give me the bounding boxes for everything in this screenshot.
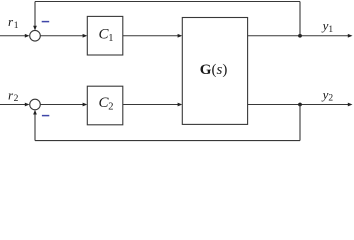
svg-text:1: 1 xyxy=(328,25,333,35)
svg-text:G(s): G(s) xyxy=(200,62,228,78)
svg-text:2: 2 xyxy=(14,94,19,104)
block C1 xyxy=(87,16,123,55)
junction node on y1 line xyxy=(298,34,302,38)
svg-text:2: 2 xyxy=(108,102,113,113)
svg-text:y: y xyxy=(321,87,329,102)
arrowhead into G top input xyxy=(178,34,183,38)
arrowhead output y2 xyxy=(348,103,353,107)
wire S1 to C1 xyxy=(40,35,83,37)
arrowhead feedback into S1 top xyxy=(33,26,37,31)
arrowhead feedback into S2 bottom xyxy=(33,110,37,115)
feedback wire top horizontal xyxy=(35,1,300,3)
summing junction S1 xyxy=(30,30,41,41)
junction node on y2 line xyxy=(298,103,302,107)
feedback wire bottom horizontal xyxy=(35,140,300,142)
feedback wire down to S1 xyxy=(34,2,36,27)
svg-text:2: 2 xyxy=(328,94,333,104)
svg-text:1: 1 xyxy=(108,33,113,44)
arrowhead into C2 xyxy=(83,103,88,107)
wire C2 to G xyxy=(123,104,179,106)
feedback wire y2 down xyxy=(299,105,301,141)
arrowhead output y1 xyxy=(348,34,353,38)
wire C1 to G xyxy=(123,35,179,37)
arrowhead r1 into summing junction S1 xyxy=(25,34,30,38)
plant block G(s) xyxy=(182,18,247,125)
minus sign at S2 xyxy=(42,115,49,117)
svg-text:y: y xyxy=(321,18,329,33)
feedback wire up to S2 xyxy=(34,114,36,141)
wire G to output y1 xyxy=(248,35,349,37)
wire r2 input xyxy=(0,104,26,106)
wire G to output y2 xyxy=(248,104,349,106)
arrowhead r2 into summing junction S2 xyxy=(25,103,30,107)
minus sign at S1 xyxy=(42,21,50,23)
block C2 xyxy=(87,86,123,125)
wire S2 to C2 xyxy=(40,104,83,106)
svg-text:1: 1 xyxy=(14,21,19,31)
arrowhead into G bottom input xyxy=(178,103,183,107)
feedback wire y1 up xyxy=(299,2,301,36)
wire r1 input xyxy=(0,35,26,37)
arrowhead into C1 xyxy=(83,34,88,38)
summing junction S2 xyxy=(30,99,41,110)
